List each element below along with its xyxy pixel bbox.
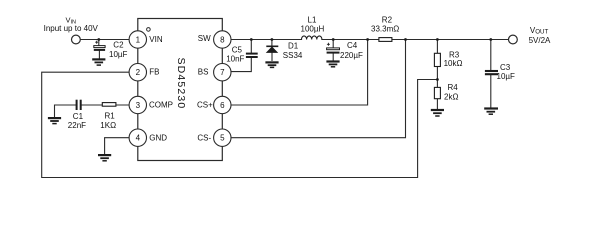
svg-text:22nF: 22nF xyxy=(68,121,86,130)
svg-text:100µH: 100µH xyxy=(301,25,325,34)
resistor R4 xyxy=(434,87,440,98)
wire L1 right to R2 left xyxy=(322,39,379,41)
svg-text:C1: C1 xyxy=(73,112,84,121)
pin 2 circle xyxy=(129,63,146,80)
svg-text:2kΩ: 2kΩ xyxy=(444,93,458,102)
resistor R2 xyxy=(379,38,392,42)
ground (R4) xyxy=(431,110,444,116)
resistor R1 xyxy=(102,103,116,107)
wire C4 branch xyxy=(332,40,334,61)
svg-text:4: 4 xyxy=(136,134,141,143)
junction node C4 xyxy=(332,38,335,41)
svg-text:C3: C3 xyxy=(500,63,511,72)
pin 4 circle xyxy=(129,129,146,146)
svg-text:C4: C4 xyxy=(347,41,358,50)
svg-text:5V/2A: 5V/2A xyxy=(529,36,551,45)
svg-text:VIN: VIN xyxy=(149,35,163,44)
pin 1 circle xyxy=(129,31,146,48)
wire C2 stem xyxy=(98,40,101,59)
svg-text:FB: FB xyxy=(149,68,159,77)
wire R3 stems xyxy=(436,40,438,80)
wire COMP pin3 to R1 xyxy=(116,104,138,106)
ground (C3) xyxy=(484,109,498,115)
svg-text:10µF: 10µF xyxy=(109,50,128,59)
svg-text:1: 1 xyxy=(136,35,141,44)
wire C5 branch SW to BS pin7 xyxy=(231,40,251,72)
capacitor C2 xyxy=(94,41,105,50)
junction node CS+ xyxy=(366,38,369,41)
capacitor C4 xyxy=(327,43,340,53)
wire D1 branch xyxy=(271,40,273,61)
wire feedback node to FB pin 2 xyxy=(42,72,438,177)
junction node CS- xyxy=(404,38,407,41)
svg-text:7: 7 xyxy=(220,68,225,77)
pin 3 circle xyxy=(129,96,146,113)
junction node C5/SW xyxy=(250,38,253,41)
ground (C1) xyxy=(48,118,61,124)
svg-text:VOUT: VOUT xyxy=(530,26,549,36)
junction node R3 top xyxy=(436,38,439,41)
svg-text:CS+: CS+ xyxy=(197,101,213,110)
svg-text:C5: C5 xyxy=(232,46,243,55)
wire R2 right to output terminal xyxy=(392,39,509,41)
svg-text:10kΩ: 10kΩ xyxy=(444,59,463,68)
capacitor C1 xyxy=(77,100,81,110)
svg-text:SW: SW xyxy=(198,34,211,43)
svg-text:C2: C2 xyxy=(113,41,124,50)
svg-text:GND: GND xyxy=(149,133,167,142)
svg-text:CS-: CS- xyxy=(197,133,211,142)
op-amp U1 : SD45230 regulator IC body xyxy=(138,19,223,161)
wire C1 to ground xyxy=(55,105,76,117)
pin 6 circle xyxy=(214,96,231,113)
terminal output xyxy=(509,35,518,44)
svg-text:SS34: SS34 xyxy=(283,51,303,60)
svg-text:8: 8 xyxy=(220,35,225,44)
junction node D1/SW xyxy=(271,38,274,41)
wire SW rail pin8 to L1 xyxy=(222,39,301,41)
inductor L1 xyxy=(302,36,322,40)
ground (GND pin 4) xyxy=(98,155,111,161)
svg-text:R1: R1 xyxy=(105,112,116,121)
wire input terminal to pin 1 VIN xyxy=(80,39,138,41)
svg-text:COMP: COMP xyxy=(149,101,173,110)
capacitor C5 xyxy=(246,54,258,57)
diode D1 xyxy=(266,46,278,52)
pin 7 circle xyxy=(214,63,231,80)
wire R1 to C1 xyxy=(82,104,103,106)
resistor R3 xyxy=(434,53,440,66)
svg-text:10µF: 10µF xyxy=(497,72,516,81)
junction node C2/input rail xyxy=(97,38,100,41)
svg-text:10nF: 10nF xyxy=(226,55,244,64)
pin 1 indicator dot xyxy=(147,28,151,32)
wire CS- sense from R2 right to pin 5 xyxy=(231,40,406,138)
svg-text:33.3mΩ: 33.3mΩ xyxy=(371,25,399,34)
wire C3 branch xyxy=(490,40,492,108)
svg-text:L1: L1 xyxy=(308,16,317,25)
svg-text:220µF: 220µF xyxy=(340,51,363,60)
junction node C3 top xyxy=(489,38,492,41)
wire CS+ sense from R2 left to pin 6 xyxy=(231,40,368,106)
ground (D1) xyxy=(265,62,278,67)
svg-text:Input up to 40V: Input up to 40V xyxy=(44,24,99,33)
terminal input xyxy=(72,35,81,44)
pin 5 circle xyxy=(214,129,231,146)
svg-text:3: 3 xyxy=(136,101,141,110)
capacitor C3 xyxy=(485,71,498,74)
svg-text:R4: R4 xyxy=(448,83,459,92)
ground (C4) xyxy=(326,62,339,67)
wire GND pin4 to ground xyxy=(105,138,138,154)
svg-text:BS: BS xyxy=(198,68,209,77)
svg-text:6: 6 xyxy=(220,101,225,110)
svg-text:SD45230: SD45230 xyxy=(175,57,187,109)
pin 8 circle xyxy=(214,31,231,48)
junction node FB divider xyxy=(436,78,439,81)
svg-text:2: 2 xyxy=(136,68,141,77)
svg-text:1KΩ: 1KΩ xyxy=(100,121,116,130)
svg-text:R2: R2 xyxy=(382,15,393,24)
wire R4 stems xyxy=(436,80,438,109)
svg-text:D1: D1 xyxy=(288,41,299,50)
svg-text:5: 5 xyxy=(220,134,225,143)
ground (C2) xyxy=(92,59,105,65)
